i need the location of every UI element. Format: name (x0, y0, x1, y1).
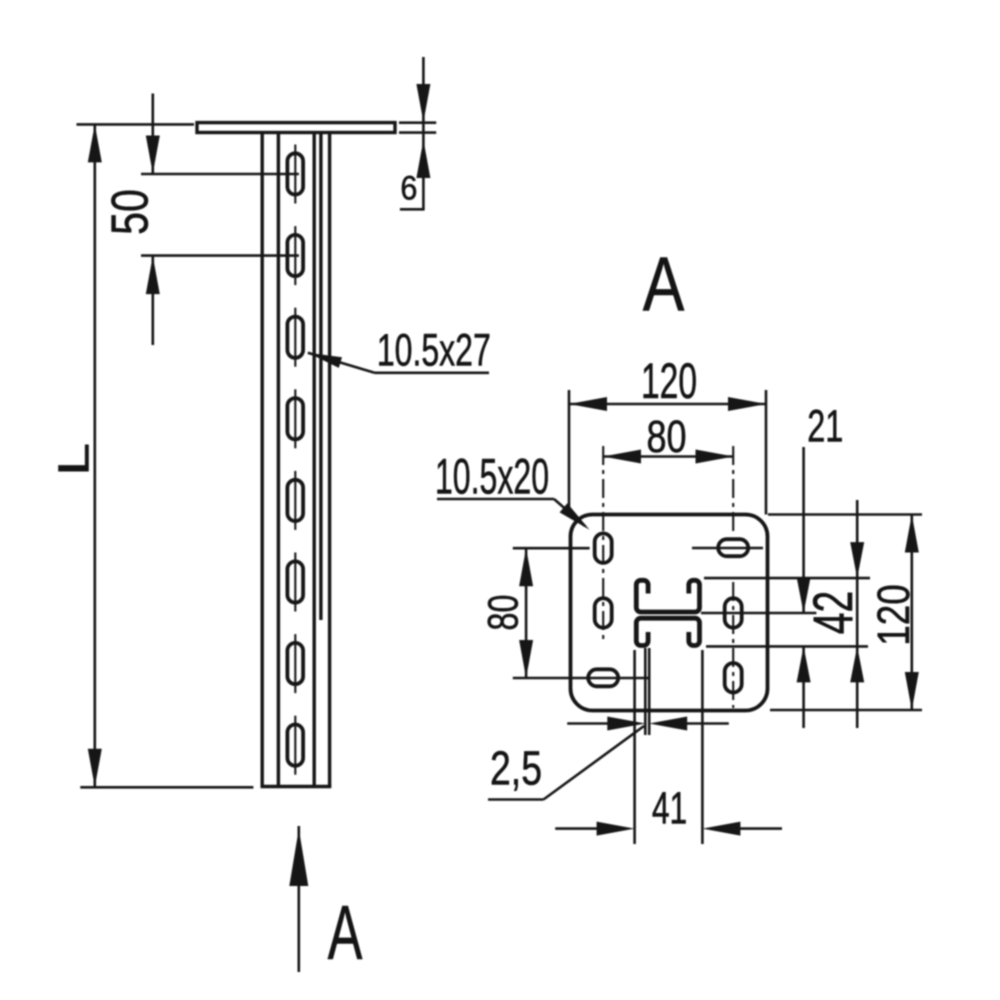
svg-text:80: 80 (646, 411, 686, 462)
dimension 120 top line (569, 403, 766, 406)
dimension 50 line upper tail (152, 94, 155, 174)
hanger post inner edge line (partial) (319, 133, 322, 621)
extension lines lip thickness 2.5 (644, 648, 647, 735)
svg-text:A: A (643, 241, 685, 327)
dimension 21 line (802, 447, 805, 613)
extension line plate bottom right (view A) (770, 709, 922, 712)
channel profile upper C (cross-section) (636, 580, 699, 612)
centerline slot row 3 left stub (513, 677, 651, 680)
svg-text:21: 21 (807, 402, 843, 451)
dimension L arrow down (88, 749, 102, 787)
slot 10.5x27 #2 in post (287, 235, 303, 276)
slot 10.5x27 #1 in post (287, 153, 303, 194)
extension line profile left down (633, 650, 636, 844)
hanger post outer wall line (left) (261, 133, 264, 787)
dimension L line (94, 124, 97, 786)
slot 10.5x27 #7 in post (287, 643, 303, 684)
plate slot mid-right (vertical) (725, 598, 742, 628)
svg-text:120: 120 (641, 353, 697, 409)
extension line plate top left (77, 123, 195, 126)
svg-text:2,5: 2,5 (490, 742, 542, 796)
plate slot top-left 10.5x20 (vertical) (595, 533, 612, 563)
dimension 80 left line (525, 548, 528, 678)
post bottom edge (261, 785, 332, 788)
centerline slot row 2 right stub (701, 612, 816, 615)
plate slot bottom-right (vertical) (725, 663, 742, 693)
extension line plate left edge up (568, 390, 571, 515)
hanger post outer wall line (right) (328, 133, 331, 787)
centerline right slot column (732, 446, 734, 533)
extension line plate right edge up (765, 390, 768, 515)
plate slot top-right (horizontal) (718, 539, 748, 556)
dimension 6 underline (400, 208, 425, 211)
extension line slot row 2 (141, 254, 299, 257)
svg-text:80: 80 (480, 595, 528, 631)
dimension L arrow up (88, 124, 102, 162)
top plate (side view) (197, 123, 395, 133)
label 10.5x20 underline (437, 498, 554, 501)
dimension 50 arrow down (146, 136, 160, 174)
svg-text:A: A (328, 889, 363, 976)
svg-text:10.5x27: 10.5x27 (377, 327, 491, 377)
extension line plate bottom right (399, 131, 436, 134)
svg-text:50: 50 (101, 189, 159, 235)
label 10.5x20 leader arrow (560, 503, 590, 530)
dimension 6 arrow up (416, 140, 430, 178)
view direction arrow A (297, 826, 300, 972)
centerline slot row 1 right stub (692, 547, 763, 550)
extension line plate top right (399, 121, 436, 124)
dimension 6 arrow down (416, 84, 430, 122)
dimension 120 right line (910, 515, 913, 711)
label 10.5x27 underline (375, 371, 490, 374)
slot 10.5x27 #4 in post (287, 398, 303, 439)
svg-text:41: 41 (652, 784, 687, 834)
plate slot bottom-left (horizontal) (588, 669, 618, 686)
label 10.5x20 leader line (554, 499, 585, 526)
dimension 50 line lower tail (152, 256, 155, 345)
centerline slot row 1 left stub (513, 547, 590, 550)
svg-text:6: 6 (400, 169, 417, 207)
dimension 6 line (422, 57, 425, 209)
dimension 42 line (856, 500, 859, 728)
hanger post lip edge line (277, 133, 280, 787)
channel profile lower C (cross-section) (636, 618, 699, 645)
centerline left slot column (602, 446, 604, 643)
slot 10.5x27 #8 in post (287, 725, 303, 766)
dimension 41 arrows (555, 827, 600, 830)
dimension 80 top line (603, 455, 734, 458)
extension line profile right down (701, 650, 704, 844)
slot 10.5x27 #6 in post (287, 561, 303, 602)
dimension 2,5 leader (544, 726, 645, 800)
extension line post bottom left (80, 786, 253, 789)
dimension 2,5 arrows (567, 722, 610, 725)
slot 10.5x27 #3 in post (287, 317, 303, 358)
centerline right slot column lower part (732, 582, 734, 708)
svg-text:42: 42 (802, 591, 865, 635)
extension line profile top right (704, 577, 870, 580)
svg-text:L: L (50, 443, 99, 476)
plate slot mid-left (vertical) (595, 598, 612, 628)
extension line profile bottom right (706, 645, 868, 648)
label 10.5x27 leader line (308, 353, 375, 373)
extension line slot row 1 (141, 173, 299, 176)
svg-text:120: 120 (868, 584, 918, 646)
label 10.5x27 leader arrow (308, 353, 342, 368)
svg-text:10.5x20: 10.5x20 (435, 448, 549, 504)
dimension 50 arrow up (146, 256, 160, 294)
slot 10.5x27 #5 in post (287, 480, 303, 521)
extension line plate top right (view A) (768, 513, 922, 516)
head plate 120x120 (view A) (571, 515, 768, 711)
hanger post inner edge line (313, 133, 316, 787)
